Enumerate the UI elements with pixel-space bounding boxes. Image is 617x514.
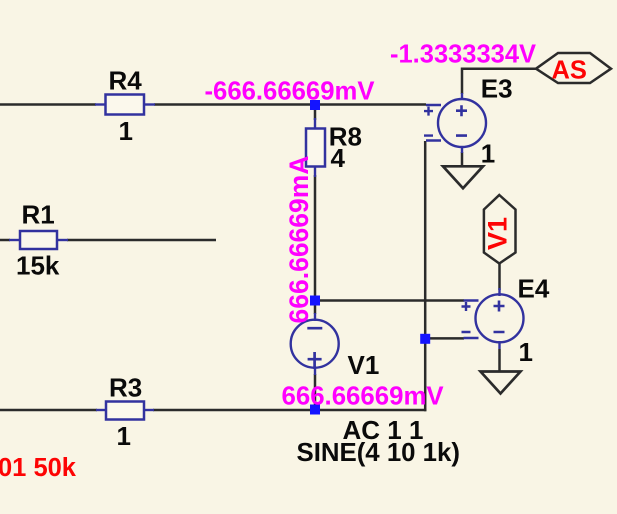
voltage source V1 [291, 313, 339, 375]
flag V1 [483, 195, 516, 264]
svg-text:15k: 15k [16, 251, 60, 281]
wire bottom net R3 to corner [153, 409, 426, 412]
svg-text:1: 1 [119, 116, 133, 146]
wire node B to V1 top [314, 301, 317, 315]
ground below E3 [443, 166, 483, 188]
svg-text:E4: E4 [518, 274, 550, 304]
svg-text:666.66669mV: 666.66669mV [282, 382, 445, 410]
wire top net R4 to E3 plus control [154, 103, 426, 106]
svg-text:SINE(4 10 1k): SINE(4 10 1k) [297, 439, 460, 467]
wire V1 bottom to bottom net [314, 374, 317, 410]
resistor R1 [9, 231, 68, 249]
wire top net from left edge to R4 [0, 103, 96, 106]
wire node B to E4 plus control [315, 299, 464, 302]
wire R8 top lead net [314, 105, 317, 121]
wire R8 bottom to node B [314, 175, 317, 301]
svg-text:-666.66669mV: -666.66669mV [205, 78, 375, 106]
svg-text:V1: V1 [483, 217, 513, 250]
wire vertical from E3 minus control down to bottom net [424, 141, 427, 411]
svg-text:V1: V1 [348, 350, 380, 380]
ground below E4 [481, 372, 521, 394]
svg-text:AS: AS [552, 57, 587, 85]
dependent source E4 [462, 288, 524, 349]
resistor R4 [95, 95, 155, 115]
wire R1 right [0, 239, 10, 242]
svg-text:666.66669mA: 666.66669mA [284, 156, 314, 324]
svg-text:1: 1 [117, 421, 131, 451]
wire bottom net left of R3 [0, 409, 97, 412]
svg-text:1: 1 [519, 337, 533, 367]
svg-text:E3: E3 [481, 74, 513, 104]
flag AS [536, 53, 611, 85]
wire E3 bottom to ground [461, 152, 464, 167]
junction node B [310, 296, 320, 306]
resistor R3 [96, 402, 154, 420]
wire E3 top to AS flag [462, 69, 536, 94]
svg-text:R4: R4 [109, 65, 143, 95]
junction node A [310, 100, 320, 110]
svg-text:R1: R1 [22, 200, 55, 230]
junction at E4 minus control branch [420, 334, 430, 344]
svg-text:4: 4 [331, 143, 346, 173]
junction bottom net at V1 [310, 405, 320, 415]
wire E4 bottom to ground [498, 349, 501, 372]
dependent source E3 [424, 93, 486, 153]
svg-text:01 50k: 01 50k [0, 454, 77, 482]
wire R1 left [67, 239, 216, 242]
wire branch to E4 minus control [425, 337, 464, 340]
svg-text:-1.3333334V: -1.3333334V [390, 41, 536, 69]
resistor R8 [306, 118, 325, 177]
wire V1 flag to E4 top [498, 263, 501, 290]
svg-text:1: 1 [481, 139, 495, 169]
svg-text:R3: R3 [109, 372, 142, 402]
